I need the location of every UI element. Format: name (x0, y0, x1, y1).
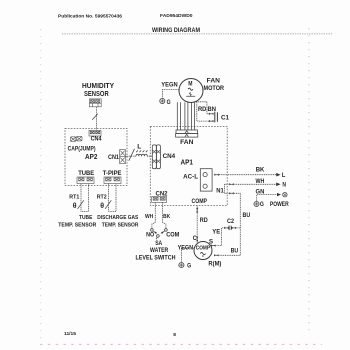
motor thermal protector (186, 92, 195, 96)
svg-text:N: N (282, 181, 286, 188)
svg-text:POWER: POWER (270, 201, 289, 208)
junction C (196, 237, 198, 242)
motor tilde (188, 88, 193, 90)
AP2 control board box (65, 128, 127, 185)
junction N1 top (229, 183, 234, 185)
svg-text:WH: WH (145, 214, 153, 220)
svg-text:CAP(JUMP): CAP(JUMP) (68, 145, 96, 152)
svg-text:G: G (187, 262, 191, 269)
svg-text:8: 8 (173, 332, 176, 338)
connector CN4 (AP2) (89, 130, 101, 136)
capacitor jumpers CAP(JUMP) (70, 136, 82, 141)
power ground terminal circle (283, 193, 287, 197)
svg-text:AP2: AP2 (85, 154, 98, 161)
svg-text:L: L (137, 143, 141, 150)
svg-text:COMP: COMP (196, 246, 210, 252)
inductor L coil (136, 154, 147, 156)
svg-text:AP1: AP1 (181, 160, 194, 167)
header dashed rule (62, 33, 333, 35)
svg-text:YEGN: YEGN (161, 82, 178, 89)
wire C2 left to S terminal (216, 228, 225, 246)
switch pivot (156, 235, 159, 240)
wire GN (257, 195, 277, 202)
svg-text:BU: BU (231, 247, 239, 254)
arrow L (275, 173, 280, 177)
junction S (211, 245, 216, 247)
C2 right junction (232, 227, 237, 229)
svg-text:θ: θ (73, 203, 77, 210)
svg-text:MOTOR: MOTOR (204, 85, 225, 92)
compressor circle (194, 242, 212, 260)
svg-text:BU: BU (243, 212, 251, 219)
wire BK to power L (219, 174, 276, 176)
svg-text:CN2: CN2 (156, 190, 169, 197)
svg-text:DISCHARGE GAS: DISCHARGE GAS (97, 215, 138, 221)
crop mark dotted line bottom (40, 343, 322, 345)
crop mark dotted line right (308, 28, 310, 332)
svg-text:RT1: RT1 (69, 194, 79, 200)
AP1 main board box (150, 127, 227, 206)
crop mark dotted line left (40, 29, 42, 344)
wire YEGN comp to ground (181, 248, 194, 262)
svg-text:BK: BK (256, 166, 265, 173)
wire COMP RD to compressor C (196, 206, 198, 244)
svg-text:FAN: FAN (207, 78, 221, 85)
svg-text:YE: YE (212, 229, 220, 236)
svg-text:T-PIPE: T-PIPE (103, 170, 122, 177)
svg-text:COM: COM (166, 231, 179, 238)
svg-text:HUMIDITY: HUMIDITY (82, 83, 114, 90)
svg-text:GN: GN (256, 189, 265, 196)
compressor tilde (200, 252, 205, 256)
wire CN1 to CN4 with inductor (126, 155, 153, 157)
svg-text:G: G (167, 99, 171, 106)
fan motor wires (3 hollow) (177, 102, 194, 130)
svg-text:TUBE: TUBE (78, 170, 94, 177)
thermistor RT1 element slash (78, 200, 84, 209)
svg-text:Publication No. 5995570436: Publication No. 5995570436 (58, 14, 123, 19)
connector TUBE (77, 177, 94, 184)
connector CN1 (120, 150, 126, 164)
svg-text:11/15: 11/15 (64, 331, 76, 336)
svg-text:CN4: CN4 (163, 153, 176, 160)
svg-text:RT2: RT2 (97, 194, 107, 200)
wire YEGN fan motor to ground (163, 89, 180, 98)
ground G (comp) (179, 263, 184, 268)
junction AC-L (214, 174, 219, 176)
junction N1 bottom (229, 192, 234, 194)
wire BU vertical from N1 to C2 and R (234, 193, 240, 255)
svg-text:TEMP. SENSOR: TEMP. SENSOR (102, 222, 139, 228)
humidity sensor connector (89, 99, 101, 107)
svg-text:WATER: WATER (150, 247, 169, 254)
slash on humidity wire (92, 114, 98, 120)
wire humidity sensor to CN4 (96, 107, 98, 131)
svg-text:θ: θ (100, 203, 104, 210)
terminal block AC-L (200, 169, 212, 191)
svg-text:TEMP. SENSOR: TEMP. SENSOR (58, 222, 96, 228)
svg-text:LEVEL SWITCH: LEVEL SWITCH (136, 254, 176, 261)
svg-text:CN1: CN1 (108, 154, 119, 161)
svg-text:M: M (188, 80, 192, 87)
fan motor M circle (179, 79, 203, 103)
capacitor C1 plates (215, 112, 218, 123)
thermistor RT2 element slash (105, 200, 111, 209)
svg-text:COMP: COMP (192, 198, 208, 205)
wire WH to power N (234, 183, 276, 185)
svg-text:R(M): R(M) (208, 260, 221, 267)
wire RD/BN taps to C1 (195, 102, 210, 121)
svg-text:FAD954DWD0: FAD954DWD0 (160, 13, 193, 18)
svg-text:N1: N1 (216, 187, 224, 194)
arrow N (276, 183, 280, 187)
svg-text:NO: NO (146, 231, 154, 238)
svg-text:AC-L: AC-L (183, 174, 198, 181)
svg-text:BK: BK (163, 214, 170, 220)
arrow GN terminal (277, 193, 281, 196)
ground G (power) (254, 201, 259, 206)
svg-text:C: C (193, 235, 197, 242)
svg-text:SENSOR: SENSOR (84, 91, 109, 98)
connector CN2 (152, 197, 167, 203)
svg-text:WH: WH (256, 178, 265, 185)
thermistor RT2 loop wires (109, 184, 117, 212)
svg-text:FAN: FAN (180, 139, 194, 146)
node N1 stub wires (225, 184, 229, 193)
junction R (214, 254, 219, 256)
svg-text:C1: C1 (221, 114, 230, 121)
capacitor C2 plates (229, 226, 231, 231)
junction below COMP (196, 208, 198, 213)
svg-text:RD: RD (200, 217, 208, 224)
wire C2 right to BU (236, 227, 241, 229)
C2 left junction (224, 227, 229, 229)
water level switch SA contacts (151, 229, 168, 234)
ground G (fan) (160, 98, 165, 103)
thermistor RT1 loop wires (81, 184, 89, 212)
connector CN4 (AP1) (152, 145, 160, 169)
svg-text:SA: SA (155, 240, 162, 247)
wire R to BU (220, 254, 241, 256)
connector FAN (board) (176, 130, 198, 137)
svg-text:CN4: CN4 (91, 136, 102, 143)
slash on CN1 wire (129, 149, 135, 161)
C1 terminal junctions (209, 113, 214, 115)
svg-text:C2: C2 (227, 218, 234, 225)
svg-text:TUBE: TUBE (79, 215, 93, 221)
svg-text:WIRING DIAGRAM: WIRING DIAGRAM (152, 27, 200, 34)
svg-text:G: G (260, 201, 264, 208)
connector T-PIPE (104, 177, 121, 184)
svg-text:YEGN: YEGN (178, 244, 194, 251)
wires CN2 to water level switch (152, 202, 166, 228)
svg-text:L: L (282, 172, 286, 179)
svg-text:RD: RD (198, 107, 207, 113)
